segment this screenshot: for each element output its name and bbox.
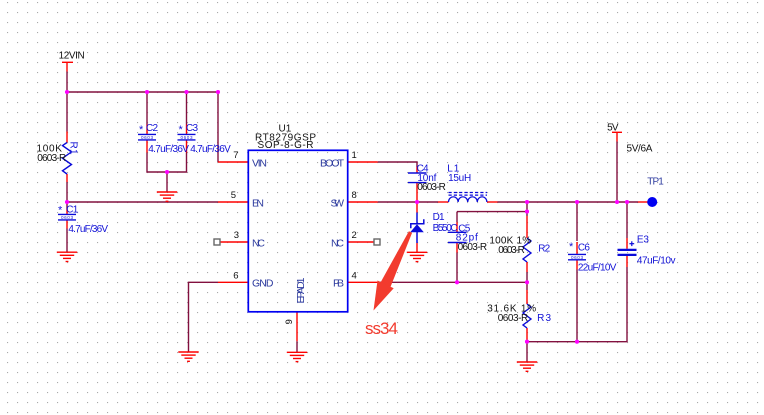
svg-text:5V: 5V — [607, 122, 619, 133]
svg-text:6: 6 — [233, 270, 238, 281]
svg-text:22uF/10V: 22uF/10V — [578, 263, 617, 274]
svg-text:GND: GND — [252, 278, 274, 290]
svg-text:C6: C6 — [578, 242, 590, 253]
svg-text:TP1: TP1 — [647, 177, 664, 188]
svg-text:R3: R3 — [537, 313, 551, 324]
svg-text:0603: 0603 — [141, 135, 153, 140]
svg-text:3: 3 — [234, 230, 239, 241]
svg-text:EN: EN — [252, 198, 264, 210]
svg-text:E3: E3 — [637, 234, 649, 245]
svg-text:12VIN: 12VIN — [59, 51, 85, 62]
svg-text:C2: C2 — [146, 123, 158, 134]
svg-text:EPAD1: EPAD1 — [295, 277, 307, 303]
svg-text:ss34: ss34 — [365, 319, 398, 338]
svg-text:10nf: 10nf — [417, 173, 436, 184]
svg-text:NC: NC — [252, 238, 265, 250]
svg-text:B550C: B550C — [433, 223, 458, 234]
svg-text:5V/6A: 5V/6A — [627, 144, 653, 155]
svg-text:5: 5 — [231, 190, 236, 201]
svg-text:0603-R: 0603-R — [498, 245, 525, 256]
svg-text:NC: NC — [331, 238, 344, 250]
svg-text:D1: D1 — [433, 212, 445, 223]
svg-text:BOOT: BOOT — [320, 158, 345, 170]
svg-text:C3: C3 — [186, 123, 198, 134]
svg-text:4.7uF/36V: 4.7uF/36V — [68, 224, 108, 235]
svg-text:4: 4 — [352, 270, 357, 281]
svg-text:0603: 0603 — [571, 255, 583, 260]
svg-text:R1: R1 — [68, 142, 79, 155]
svg-text:7: 7 — [233, 150, 238, 161]
svg-text:0603-R: 0603-R — [498, 313, 529, 324]
svg-text:0603: 0603 — [181, 135, 193, 140]
svg-text:47uF/10v: 47uF/10v — [637, 255, 676, 266]
svg-text:9: 9 — [284, 319, 295, 324]
svg-text:*: * — [569, 241, 574, 253]
svg-text:82pf: 82pf — [456, 232, 478, 243]
svg-text:0603-R: 0603-R — [458, 242, 488, 253]
svg-text:15uH: 15uH — [448, 173, 471, 184]
svg-text:SW: SW — [331, 198, 345, 210]
svg-text:SOP-8-G-R: SOP-8-G-R — [258, 140, 314, 151]
svg-text:4.7uF/36V: 4.7uF/36V — [190, 144, 231, 155]
svg-text:VIN: VIN — [252, 158, 267, 170]
svg-text:FB: FB — [333, 278, 344, 290]
svg-text:4.7uF/36V: 4.7uF/36V — [148, 144, 189, 155]
svg-text:C1: C1 — [66, 205, 78, 216]
svg-text:0603-R: 0603-R — [37, 153, 66, 164]
svg-text:8: 8 — [352, 190, 357, 201]
svg-text:1: 1 — [352, 150, 357, 161]
svg-text:R2: R2 — [538, 244, 550, 255]
svg-text:2: 2 — [352, 230, 357, 241]
svg-text:0603: 0603 — [61, 215, 73, 220]
